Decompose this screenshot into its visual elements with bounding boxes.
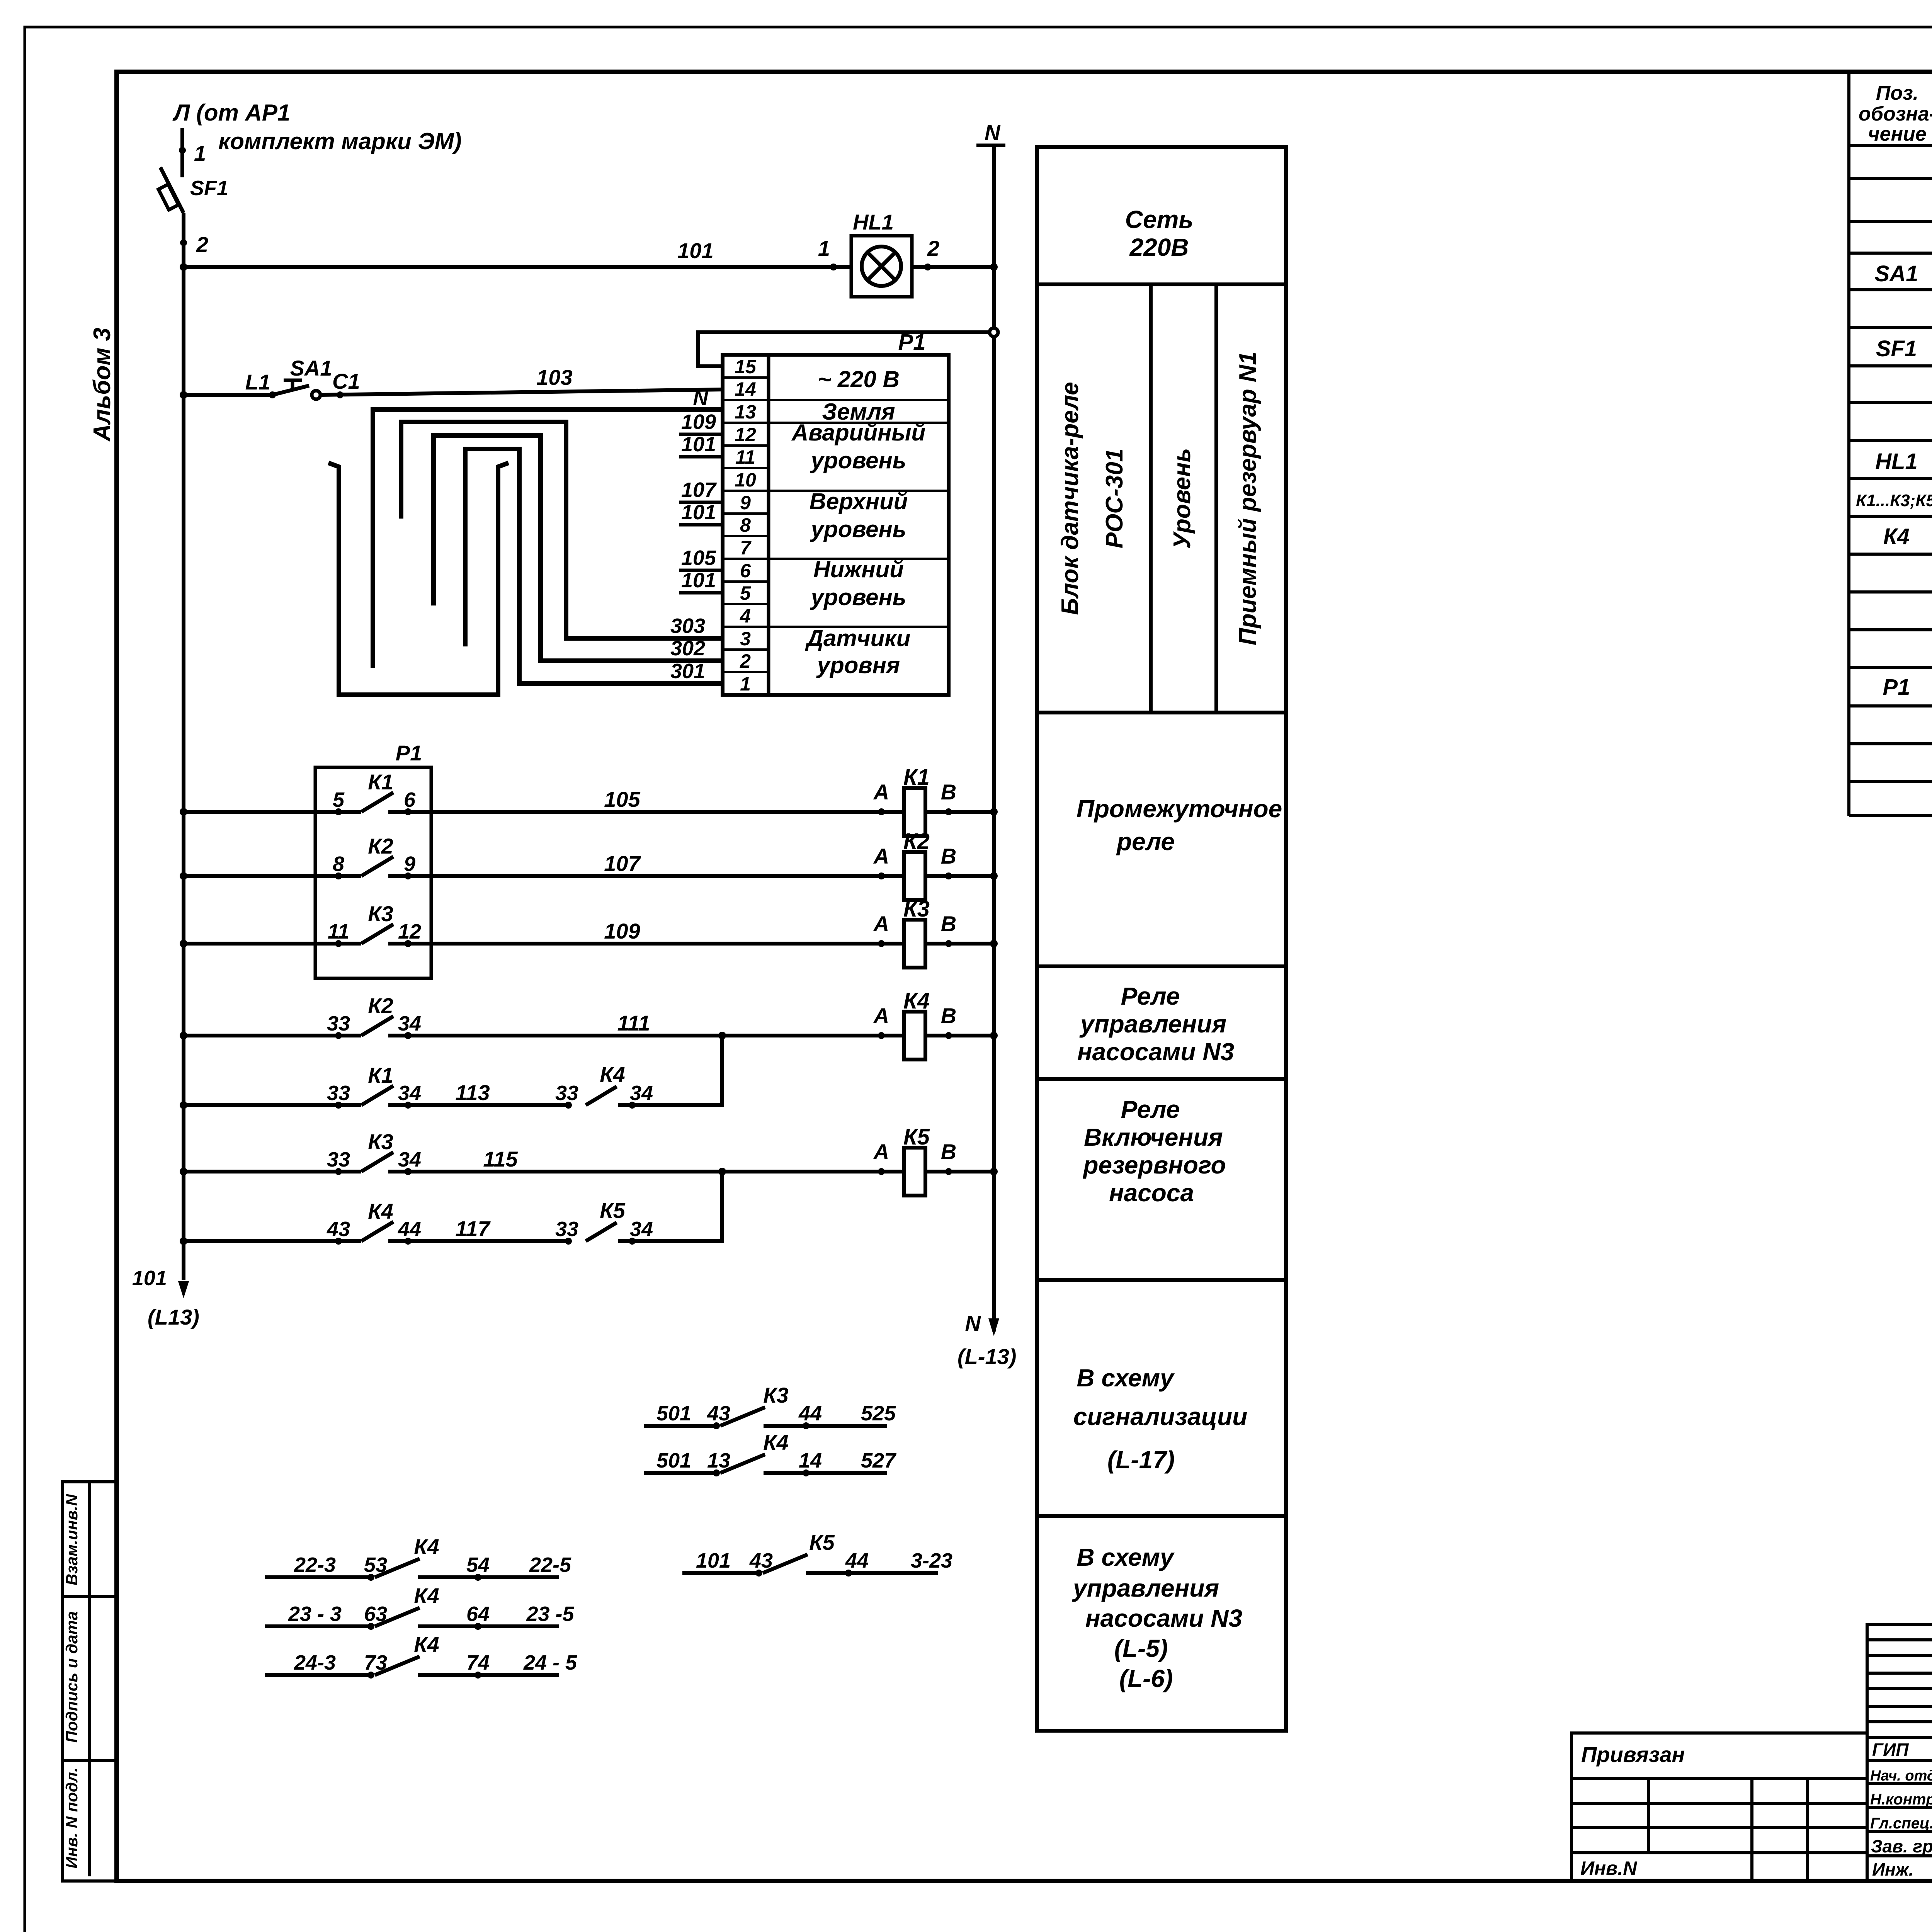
svg-text:К4: К4 <box>368 1199 393 1223</box>
svg-text:К4: К4 <box>903 988 930 1014</box>
svg-text:К4: К4 <box>1883 524 1910 549</box>
svg-text:Инв.N: Инв.N <box>1580 1857 1637 1879</box>
svg-text:4: 4 <box>740 605 751 627</box>
lamp HL1 circle <box>862 247 901 286</box>
lamp terminal 1 <box>830 264 837 270</box>
svg-text:23 - 3: 23 - 3 <box>288 1602 342 1626</box>
ladder row 5: contacts K1 and K4 aux <box>184 1103 361 1107</box>
relay coil К4 <box>878 1032 885 1039</box>
lamp terminal 2 <box>924 264 931 270</box>
node 1 <box>179 147 186 154</box>
stub wire 105 pin6 <box>679 569 723 572</box>
svg-text:13: 13 <box>707 1449 730 1472</box>
svg-text:насоса: насоса <box>1109 1179 1194 1207</box>
svg-text:реле: реле <box>1116 828 1175 855</box>
SA1 left node L1 <box>269 391 276 398</box>
svg-text:Аварийный: Аварийный <box>791 420 925 446</box>
svg-text:уровень: уровень <box>810 584 906 610</box>
svg-text:К4: К4 <box>414 1534 439 1559</box>
svg-text:чение: чение <box>1868 123 1926 145</box>
svg-text:C1: C1 <box>332 369 360 393</box>
svg-text:(L-17): (L-17) <box>1107 1446 1175 1474</box>
svg-text:5: 5 <box>333 788 345 811</box>
neutral bus N <box>992 146 996 1332</box>
relay coil К3 <box>878 940 885 947</box>
P1 contact group box <box>315 767 431 978</box>
svg-text:34: 34 <box>398 1082 421 1105</box>
svg-text:13: 13 <box>735 401 756 423</box>
svg-text:Реле: Реле <box>1121 982 1180 1010</box>
breaker SF1 body <box>158 184 179 210</box>
svg-text:14: 14 <box>799 1449 822 1472</box>
svg-text:Инж.: Инж. <box>1872 1859 1914 1879</box>
svg-text:(L-6): (L-6) <box>1119 1665 1173 1692</box>
lamp HL1 box <box>851 236 912 297</box>
wire 103 with switch SA1 <box>184 393 272 397</box>
svg-text:Альбом 3: Альбом 3 <box>89 328 116 442</box>
svg-text:Реле: Реле <box>1121 1095 1180 1123</box>
ladder row 4: contact K2 aux, coil K4 <box>184 1034 361 1037</box>
fragment contact K5 (101 / 3-23) <box>682 1571 759 1575</box>
svg-text:101: 101 <box>681 433 716 456</box>
svg-text:(L13): (L13) <box>148 1305 199 1329</box>
svg-text:уровень: уровень <box>810 516 906 542</box>
stub wire 109 pin12 <box>679 433 723 436</box>
svg-text:N: N <box>693 386 709 410</box>
svg-text:34: 34 <box>630 1082 653 1105</box>
junction dots on left bus <box>180 263 187 271</box>
svg-text:34: 34 <box>398 1148 421 1171</box>
svg-text:К3: К3 <box>368 901 393 926</box>
svg-text:В: В <box>941 780 956 804</box>
wire lamp to N bus <box>912 265 994 269</box>
svg-text:101: 101 <box>681 501 716 524</box>
svg-text:К1...К3;К5: К1...К3;К5 <box>1856 491 1932 510</box>
svg-text:302: 302 <box>670 637 705 660</box>
svg-text:А: А <box>873 780 889 804</box>
wire 101 to lamp <box>184 265 851 269</box>
svg-text:73: 73 <box>364 1651 387 1674</box>
wire 107 <box>388 874 904 878</box>
fragment contact K4 (24-3/24-5) <box>265 1673 371 1677</box>
svg-text:К1: К1 <box>368 770 393 794</box>
svg-text:111: 111 <box>617 1011 650 1035</box>
sensor wire 302 pin2 <box>434 435 723 661</box>
svg-text:насосами N3: насосами N3 <box>1077 1038 1234 1066</box>
svg-text:SF1: SF1 <box>190 177 228 200</box>
N bus bottom arrow <box>988 1318 999 1336</box>
svg-text:1: 1 <box>740 673 751 695</box>
SA1 right node C1 <box>337 391 344 398</box>
P1 connector block outline <box>723 355 949 695</box>
SA1 blade <box>272 386 309 395</box>
svg-text:В схему: В схему <box>1077 1543 1175 1571</box>
svg-text:33: 33 <box>327 1148 350 1171</box>
svg-text:К3: К3 <box>763 1383 789 1407</box>
ladder row 1: P1 contact K1, coil K1 <box>184 810 361 814</box>
fragment contact K4 (501-527) <box>644 1471 716 1475</box>
svg-text:101: 101 <box>681 569 716 592</box>
svg-text:34: 34 <box>630 1218 653 1241</box>
svg-text:Р1: Р1 <box>396 741 422 765</box>
stub wire 107 pin9 <box>679 501 723 504</box>
svg-text:Уровень: Уровень <box>1169 448 1196 549</box>
svg-text:9: 9 <box>740 492 751 514</box>
svg-text:2: 2 <box>196 232 208 257</box>
svg-text:Сеть: Сеть <box>1125 206 1194 233</box>
ladder row 6: contact K3 aux, coil K5 <box>184 1170 361 1173</box>
stub wire 101 pin8 <box>679 523 723 527</box>
svg-text:7: 7 <box>740 537 752 559</box>
svg-text:105: 105 <box>604 787 640 811</box>
svg-text:24 - 5: 24 - 5 <box>523 1651 577 1674</box>
svg-text:109: 109 <box>681 410 716 434</box>
P1 terminal row lines <box>723 378 769 672</box>
svg-text:Датчики: Датчики <box>805 625 911 651</box>
svg-text:15: 15 <box>735 356 757 378</box>
contact К4 aux <box>565 1102 572 1109</box>
svg-text:220В: 220В <box>1129 233 1189 261</box>
wire to upper row <box>618 1036 722 1105</box>
svg-text:А: А <box>873 1003 889 1028</box>
svg-text:8: 8 <box>333 852 344 876</box>
svg-text:2: 2 <box>740 650 751 672</box>
svg-text:33: 33 <box>327 1082 350 1105</box>
svg-text:L1: L1 <box>245 370 270 394</box>
svg-text:резервного: резервного <box>1082 1151 1226 1179</box>
svg-text:5: 5 <box>740 582 751 604</box>
wire 111 <box>388 1034 904 1037</box>
svg-text:10: 10 <box>735 469 756 491</box>
contact К5 aux <box>565 1238 572 1245</box>
function strip column box <box>1037 147 1286 1731</box>
svg-text:Л (от АР1: Л (от АР1 <box>172 100 290 126</box>
svg-text:117: 117 <box>455 1216 491 1241</box>
svg-text:К1: К1 <box>368 1063 393 1087</box>
signature table texts <box>1870 1739 1932 1881</box>
svg-text:101: 101 <box>132 1267 167 1290</box>
svg-text:8: 8 <box>740 514 751 536</box>
wire 117 <box>388 1239 568 1243</box>
svg-text:527: 527 <box>861 1449 897 1472</box>
left phase bus 101 <box>182 267 185 1280</box>
ground electrode wire N pin13 <box>373 410 723 668</box>
svg-text:А: А <box>873 1139 889 1164</box>
svg-text:Промежуточное: Промежуточное <box>1077 795 1282 823</box>
svg-text:К5: К5 <box>809 1530 835 1554</box>
parts list table <box>1849 74 1932 816</box>
svg-text:К5: К5 <box>600 1198 625 1223</box>
svg-text:74: 74 <box>466 1651 490 1674</box>
svg-text:54: 54 <box>466 1553 490 1577</box>
svg-text:23 -5: 23 -5 <box>526 1602 574 1626</box>
svg-text:К4: К4 <box>600 1062 625 1087</box>
svg-text:К3: К3 <box>368 1129 393 1154</box>
svg-text:уровня: уровня <box>816 652 900 678</box>
wire from Л down <box>180 128 184 177</box>
relay coil К5 <box>878 1168 885 1175</box>
svg-text:115: 115 <box>483 1147 518 1171</box>
svg-text:К4: К4 <box>763 1430 789 1454</box>
svg-text:109: 109 <box>604 919 640 943</box>
SA1 handle <box>291 380 294 389</box>
open circle junction on N bus <box>990 328 998 337</box>
svg-text:Приемный резервуар N1: Приемный резервуар N1 <box>1235 352 1261 645</box>
svg-text:HL1: HL1 <box>1875 449 1918 474</box>
svg-text:Привязан: Привязан <box>1581 1742 1685 1767</box>
svg-text:SA1: SA1 <box>1875 261 1918 286</box>
wire 113 <box>388 1103 568 1107</box>
svg-text:Н.контр.: Н.контр. <box>1870 1791 1932 1808</box>
svg-text:К4: К4 <box>414 1583 439 1608</box>
sensor wire 301 pin1 <box>465 449 723 684</box>
svg-text:К2: К2 <box>368 993 393 1018</box>
svg-text:101: 101 <box>677 238 713 263</box>
svg-text:1: 1 <box>818 236 830 260</box>
lamp cross <box>867 252 895 280</box>
svg-text:33: 33 <box>327 1012 350 1035</box>
ladder row 3: P1 contact K3, coil K3 <box>184 942 361 946</box>
svg-text:N: N <box>985 120 1001 145</box>
svg-text:Поз.: Поз. <box>1876 82 1918 104</box>
svg-text:К1: К1 <box>903 765 930 790</box>
svg-text:Р1: Р1 <box>898 330 926 355</box>
svg-text:301: 301 <box>670 660 705 683</box>
wire 103 to P1 pin 14 <box>320 389 723 395</box>
svg-text:501: 501 <box>656 1402 691 1425</box>
svg-text:Блок датчика-реле: Блок датчика-реле <box>1057 382 1083 615</box>
svg-text:525: 525 <box>861 1402 896 1425</box>
svg-text:44: 44 <box>398 1218 421 1241</box>
svg-text:6: 6 <box>404 788 416 811</box>
svg-text:В: В <box>941 844 956 868</box>
wire to upper row <box>618 1172 722 1241</box>
fragment contact K3 (501-525) <box>644 1424 716 1428</box>
svg-text:К2: К2 <box>903 829 930 854</box>
svg-text:SF1: SF1 <box>1876 336 1917 361</box>
svg-text:6: 6 <box>740 560 751 582</box>
svg-text:43: 43 <box>327 1218 350 1241</box>
stub wire 101 pin11 <box>679 455 723 459</box>
svg-text:К5: К5 <box>903 1124 930 1150</box>
svg-text:РОС-301: РОС-301 <box>1101 449 1128 548</box>
SA1 open contact circle <box>312 391 320 399</box>
svg-text:107: 107 <box>604 851 641 876</box>
svg-text:Нач. отд.: Нач. отд. <box>1870 1768 1932 1784</box>
svg-text:уровень: уровень <box>810 447 906 473</box>
P1 function section dividers <box>769 400 949 627</box>
svg-text:3-23: 3-23 <box>911 1549 952 1572</box>
svg-text:34: 34 <box>398 1012 421 1035</box>
svg-text:Включения: Включения <box>1084 1123 1223 1151</box>
table header texts <box>1859 82 1932 145</box>
svg-text:HL1: HL1 <box>853 210 894 234</box>
svg-text:63: 63 <box>364 1602 387 1626</box>
svg-text:33: 33 <box>555 1218 578 1241</box>
svg-text:(L-5): (L-5) <box>1114 1634 1168 1662</box>
svg-text:12: 12 <box>735 424 756 446</box>
ladder row 2: P1 contact K2, coil K2 <box>184 874 361 878</box>
svg-text:SA1: SA1 <box>290 356 332 380</box>
svg-text:24-3: 24-3 <box>294 1651 336 1674</box>
svg-text:12: 12 <box>398 920 421 943</box>
svg-text:11: 11 <box>328 920 349 943</box>
relay coil К1 <box>878 808 885 815</box>
left margin stamp cells block <box>63 1482 117 1881</box>
svg-text:управления: управления <box>1079 1010 1226 1038</box>
svg-text:53: 53 <box>364 1553 387 1577</box>
svg-text:9: 9 <box>404 852 415 876</box>
svg-text:К3: К3 <box>903 896 930 922</box>
svg-text:Взам.инв.N: Взам.инв.N <box>63 1493 81 1585</box>
breaker SF1 blade <box>160 167 184 213</box>
wire 105 <box>388 810 904 814</box>
svg-text:К4: К4 <box>414 1632 439 1656</box>
svg-text:управления: управления <box>1072 1574 1219 1602</box>
svg-text:К2: К2 <box>368 834 393 858</box>
svg-text:22-3: 22-3 <box>294 1553 336 1577</box>
svg-text:101: 101 <box>696 1549 731 1572</box>
sensor wire 303 pin3 <box>401 422 723 638</box>
svg-text:В: В <box>941 912 956 936</box>
svg-text:Подпись и дата: Подпись и дата <box>63 1611 81 1743</box>
svg-text:Нижний: Нижний <box>813 556 904 582</box>
node 2 <box>180 239 187 246</box>
svg-text:14: 14 <box>735 378 756 400</box>
svg-text:107: 107 <box>681 478 717 502</box>
svg-text:1: 1 <box>194 141 206 165</box>
svg-text:103: 103 <box>536 365 572 389</box>
svg-text:обозна-: обозна- <box>1859 103 1932 125</box>
wire 109 <box>388 942 904 946</box>
svg-text:А: А <box>873 844 889 868</box>
relay coil К2 <box>878 872 885 879</box>
svg-text:насосами N3: насосами N3 <box>1085 1604 1242 1632</box>
N bus junction dots <box>990 263 998 271</box>
svg-text:ГИП: ГИП <box>1872 1740 1909 1760</box>
svg-text:11: 11 <box>735 446 755 468</box>
wire 115 <box>388 1170 904 1173</box>
svg-text:33: 33 <box>555 1082 578 1105</box>
svg-text:комплект марки ЭМ): комплект марки ЭМ) <box>218 128 462 154</box>
svg-text:сигнализации: сигнализации <box>1073 1403 1248 1430</box>
svg-text:Р1: Р1 <box>1883 675 1910 700</box>
svg-text:113: 113 <box>455 1080 490 1105</box>
ladder row 7: contacts K4 and K5 aux <box>184 1239 361 1243</box>
svg-text:Инв. N подл.: Инв. N подл. <box>63 1767 81 1868</box>
P1 terminal numbers <box>735 356 757 695</box>
svg-text:(L-13): (L-13) <box>957 1344 1016 1369</box>
svg-text:А: А <box>873 912 889 936</box>
svg-text:44: 44 <box>845 1549 869 1572</box>
привязан attachment block <box>1571 1733 1867 1881</box>
svg-text:22-5: 22-5 <box>529 1553 571 1577</box>
P1 terminal column divider <box>767 355 770 695</box>
left bus bottom arrow <box>178 1281 189 1298</box>
wire P1 pin 15 to N bus <box>698 332 989 366</box>
svg-text:105: 105 <box>681 546 716 570</box>
svg-text:В схему: В схему <box>1077 1364 1175 1392</box>
svg-text:43: 43 <box>749 1549 773 1572</box>
svg-text:2: 2 <box>927 236 939 260</box>
svg-text:501: 501 <box>656 1449 691 1472</box>
svg-text:303: 303 <box>670 614 705 638</box>
fragment contact K4 (23-3/23-5) <box>265 1624 371 1628</box>
reservoir tank outline <box>328 463 509 695</box>
svg-text:44: 44 <box>798 1402 822 1425</box>
svg-text:3: 3 <box>740 628 751 650</box>
title block <box>1867 1624 1932 1881</box>
svg-text:В: В <box>941 1139 956 1164</box>
fragment contact K4 (22-3/22-5) <box>265 1575 371 1579</box>
svg-text:64: 64 <box>466 1602 490 1626</box>
wire SF1 to bus <box>182 213 185 267</box>
stub wire 101 pin5 <box>679 591 723 595</box>
svg-text:~ 220 В: ~ 220 В <box>818 366 900 392</box>
svg-text:Гл.спец.: Гл.спец. <box>1870 1815 1932 1832</box>
svg-text:43: 43 <box>707 1402 730 1425</box>
svg-text:Верхний: Верхний <box>810 488 908 514</box>
svg-text:Зав. гр.: Зав. гр. <box>1871 1836 1932 1856</box>
P1 function labels <box>791 366 925 678</box>
svg-text:N: N <box>965 1311 981 1335</box>
svg-text:В: В <box>941 1003 956 1028</box>
